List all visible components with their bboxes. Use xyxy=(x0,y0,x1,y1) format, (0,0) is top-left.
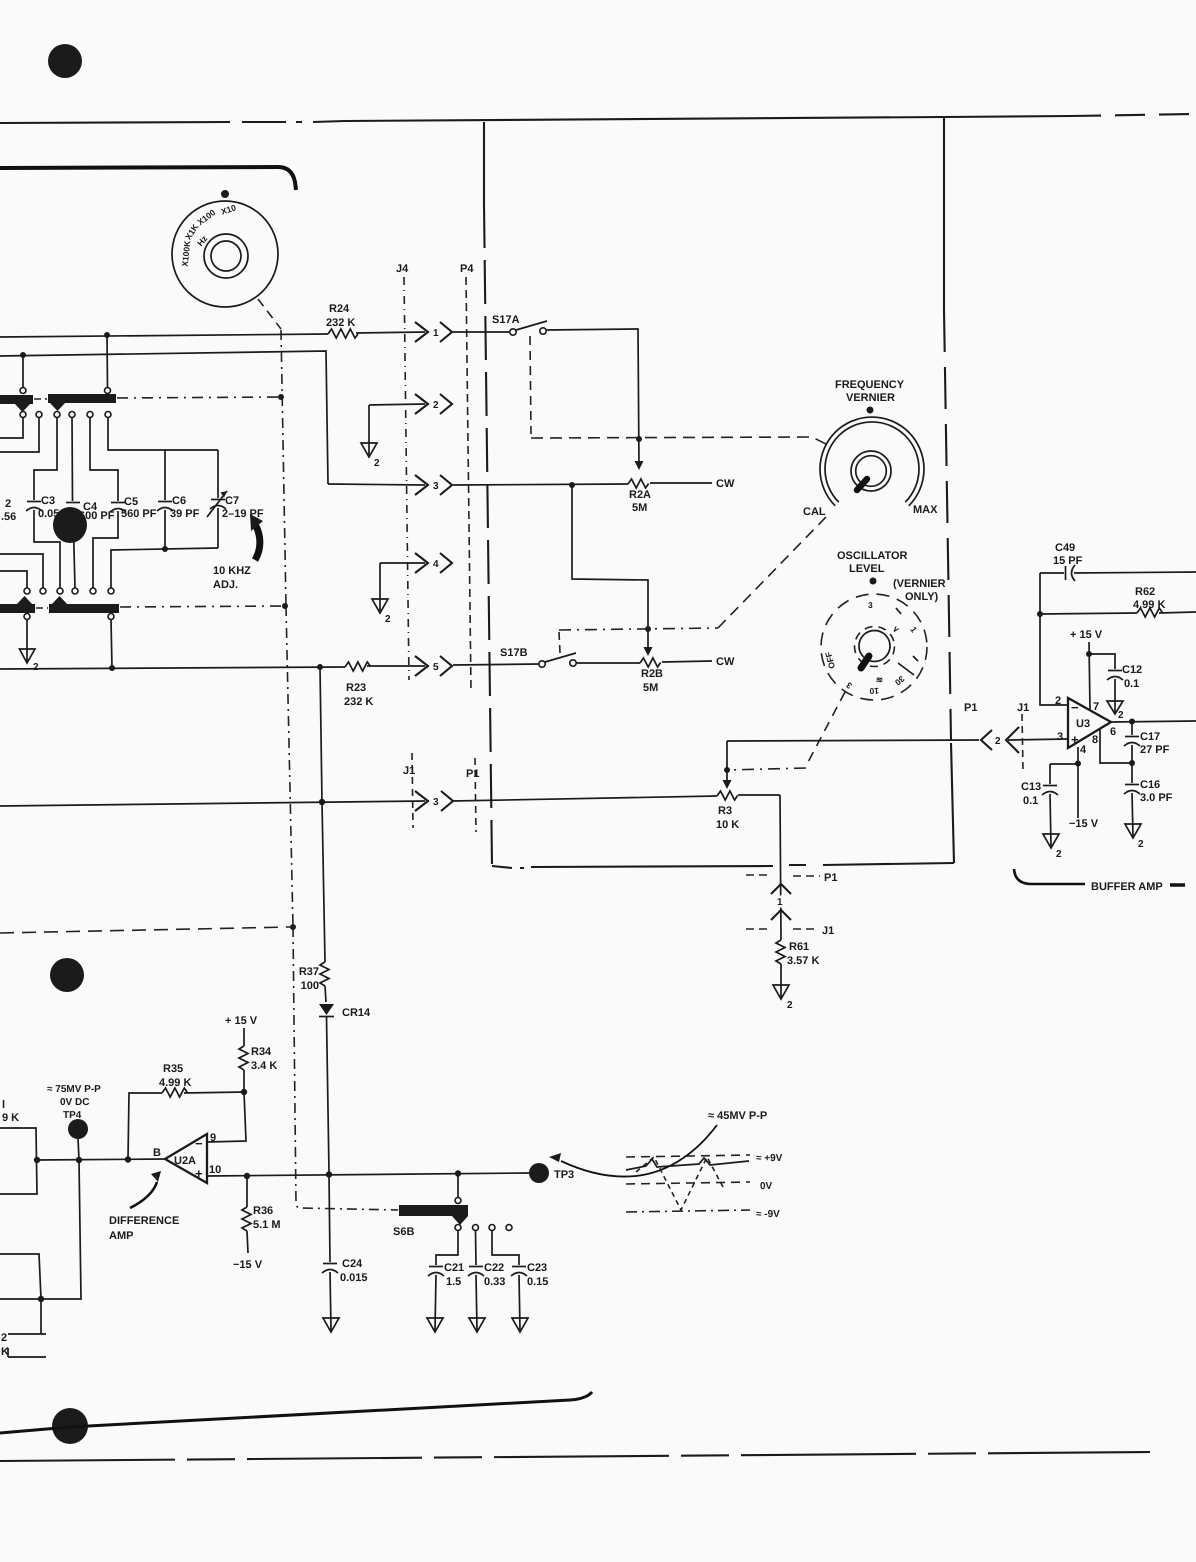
svg-text:CW: CW xyxy=(716,656,735,668)
wire: R3 right end down to R61 xyxy=(780,795,781,940)
svg-text:232 K: 232 K xyxy=(344,696,373,708)
ground below C12 xyxy=(1107,701,1124,721)
boundary vertical left (x~486) xyxy=(484,122,492,866)
wire: left input network to U2A node xyxy=(0,1128,40,1194)
svg-text:7: 7 xyxy=(1093,701,1099,713)
capacitor C24 0.015 xyxy=(322,1171,368,1330)
svg-text:232 K: 232 K xyxy=(326,317,355,329)
svg-text:R62: R62 xyxy=(1135,586,1155,598)
frequency vernier knob xyxy=(803,379,938,518)
svg-text:FREQUENCY: FREQUENCY xyxy=(835,379,905,391)
ground below C22 xyxy=(469,1318,485,1332)
svg-text:R35: R35 xyxy=(163,1063,183,1075)
capacitor C3 0.056 xyxy=(26,417,66,588)
capacitor C6 39 PF xyxy=(108,417,218,549)
mechanical link S17A to frequency vernier (dashed) xyxy=(530,336,828,445)
capacitor C4 600 PF xyxy=(65,417,115,588)
svg-text:S17B: S17B xyxy=(500,647,528,659)
wire: S17A to R2A wiper xyxy=(546,329,644,470)
svg-text:−15 V: −15 V xyxy=(233,1259,263,1271)
resistor R62 4.99K xyxy=(1037,586,1196,617)
svg-text:OSCILLATOR: OSCILLATOR xyxy=(837,550,908,562)
svg-text:C23: C23 xyxy=(527,1262,547,1274)
svg-text:R2B: R2B xyxy=(641,668,663,680)
svg-text:3.57 K: 3.57 K xyxy=(787,955,819,967)
svg-text:J1: J1 xyxy=(822,925,834,937)
svg-text:2: 2 xyxy=(5,498,11,510)
mechanical link S17B to vernier (dash-dot) xyxy=(559,517,826,653)
op-amp U3 xyxy=(1055,695,1116,756)
svg-text:27 PF: 27 PF xyxy=(1140,744,1170,756)
wire: U3 output xyxy=(1111,719,1196,725)
label approx 75MV P-P test point xyxy=(47,1084,101,1121)
capacitor C16 3.0PF xyxy=(1124,763,1173,836)
wire: line to J1-P1 pin 3 xyxy=(0,799,425,806)
svg-text:≈ -9V: ≈ -9V xyxy=(756,1209,780,1220)
wire: R3 wiper from P1 pin 2 line xyxy=(723,741,732,789)
svg-text:3: 3 xyxy=(433,481,439,492)
svg-text:ADJ.: ADJ. xyxy=(213,579,238,591)
capacitor C2 (partial label at page edge) xyxy=(1,498,16,523)
svg-text:9 K: 9 K xyxy=(2,1112,19,1124)
rotary switch wafer S1D (bottom main) xyxy=(49,596,119,620)
svg-text:5: 5 xyxy=(433,662,439,673)
wire: feedback node down to U3 pin 2 xyxy=(1040,573,1068,705)
capacitor C22 0.33 xyxy=(468,1231,505,1331)
ground below C23 xyxy=(512,1318,528,1332)
svg-text:CR14: CR14 xyxy=(342,1007,371,1019)
svg-text:0V DC: 0V DC xyxy=(60,1097,89,1108)
wire: wafer S1 top rotor to line 1 xyxy=(106,335,109,388)
ground below C16 xyxy=(1125,824,1144,850)
svg-text:C12: C12 xyxy=(1122,664,1142,676)
svg-text:3.4 K: 3.4 K xyxy=(251,1060,277,1072)
svg-text:C7: C7 xyxy=(225,495,239,507)
svg-text:39 PF: 39 PF xyxy=(170,508,200,520)
resistor R23 232K xyxy=(344,662,373,708)
wire: R34 node to U2A pin 9 xyxy=(207,1092,246,1142)
svg-text:10: 10 xyxy=(869,686,879,696)
svg-text:R23: R23 xyxy=(346,682,366,694)
capacitor C21 1.5 xyxy=(428,1231,464,1331)
wire: U3 pin 8 to C17 bottom xyxy=(1100,729,1135,766)
svg-text:R37: R37 xyxy=(299,966,319,978)
J4-P4 pin 5 xyxy=(415,656,452,676)
ground below left bottom wafer xyxy=(20,620,40,674)
svg-text:1: 1 xyxy=(777,897,783,908)
svg-text:MAX: MAX xyxy=(913,504,938,516)
section brace top left xyxy=(0,167,296,190)
ground at J4 pin 4 xyxy=(372,563,391,625)
svg-text:R34: R34 xyxy=(251,1046,272,1058)
svg-text:3: 3 xyxy=(433,797,439,808)
waveform sketch at TP3 xyxy=(626,1153,783,1220)
svg-text:S17A: S17A xyxy=(492,314,520,326)
wafer S1D contacts (bottom row) xyxy=(40,588,114,594)
J4-P4 pin 3 xyxy=(415,475,452,495)
svg-text:2: 2 xyxy=(1118,710,1124,721)
partial resistor label at page edge (..1 / 9 K) xyxy=(2,1099,19,1124)
svg-text:(VERNIER: (VERNIER xyxy=(893,578,946,590)
variable capacitor C7 2-19 PF (10 kHz adj) xyxy=(207,450,264,548)
rotary switch wafer S1A-left (top, cut by page edge) xyxy=(0,388,33,418)
wire: U3 pin 4 to -15V and C13 xyxy=(1050,747,1099,830)
svg-text:100: 100 xyxy=(301,980,319,992)
svg-text:B: B xyxy=(153,1147,161,1159)
svg-text:2: 2 xyxy=(385,614,391,625)
wire: pin 3 line to R2A xyxy=(328,482,628,488)
svg-text:4.99 K: 4.99 K xyxy=(159,1077,191,1089)
switch S17B xyxy=(453,647,576,667)
svg-text:≈ +9V: ≈ +9V xyxy=(756,1153,783,1164)
label 10 KHZ ADJ xyxy=(213,514,263,591)
svg-text:R2A: R2A xyxy=(629,489,651,501)
svg-text:4.99 K: 4.99 K xyxy=(1133,599,1165,611)
svg-text:5.1 M: 5.1 M xyxy=(253,1219,281,1231)
ground below C21 xyxy=(427,1318,443,1332)
partial component box at page edge (2 K) xyxy=(1,1332,46,1358)
svg-text:ONLY): ONLY) xyxy=(905,591,939,603)
svg-text:CW: CW xyxy=(716,478,735,490)
wire: pin3 node to R2B wiper xyxy=(572,485,653,656)
svg-text:P4: P4 xyxy=(460,263,474,275)
mechanical linkage from range dial (dashed shaft line) xyxy=(258,299,398,1210)
svg-text:15 PF: 15 PF xyxy=(1053,555,1083,567)
S6B contacts xyxy=(455,1225,512,1231)
connector J1 pin (buffer input) xyxy=(1006,702,1029,770)
resistor R34 3.4K from +15V xyxy=(225,1015,277,1095)
mechanical link oscillator level to R3 wiper (dashed) xyxy=(727,692,845,770)
svg-text:AMP: AMP xyxy=(109,1230,133,1242)
resistor R24 232K xyxy=(326,303,358,338)
svg-text:J1: J1 xyxy=(1017,702,1029,714)
svg-text:C21: C21 xyxy=(444,1262,464,1274)
wire: bottom rail of C6 C7 to wafer xyxy=(111,546,218,588)
svg-text:2: 2 xyxy=(1138,839,1144,850)
wire: second oscillator line down to J1 pin 3 xyxy=(0,351,328,484)
connector J1 pin 1 xyxy=(746,910,834,937)
wire: oscillator output line to J4 pin 1 xyxy=(0,332,425,338)
op-amp U2A (difference amp) xyxy=(153,1132,221,1183)
svg-text:1.5: 1.5 xyxy=(446,1276,461,1288)
wire: lower-left line joining TP4 line xyxy=(0,1254,41,1299)
rotary switch wafer S1B (top main) xyxy=(48,388,116,412)
test point TP4 xyxy=(68,1119,88,1139)
label approx 45MV P-P with arrow to TP3 xyxy=(549,1110,767,1177)
svg-text:−: − xyxy=(1071,700,1079,715)
wire: pin5 node down through R37 xyxy=(320,667,325,962)
J1-P1 pin 3 connector xyxy=(415,791,453,811)
svg-text:5M: 5M xyxy=(643,682,658,694)
punch hole bottom left xyxy=(52,1408,88,1444)
wafer S1B contacts (top row) xyxy=(36,412,111,418)
boundary bottom line of oscillator section xyxy=(492,863,954,868)
svg-text:l: l xyxy=(2,1099,5,1111)
switch S6B wafer xyxy=(393,1205,468,1238)
ground below C13 xyxy=(1043,834,1062,860)
svg-text:10: 10 xyxy=(209,1164,221,1176)
svg-text:.56: .56 xyxy=(1,511,16,523)
wire: U2A output pin10 line to TP3 xyxy=(207,1170,529,1179)
wire: left wafer rotor to line 2 xyxy=(22,355,24,388)
potentiometer R2A 5M xyxy=(628,478,735,514)
svg-text:3: 3 xyxy=(868,600,873,610)
svg-text:2: 2 xyxy=(374,458,380,469)
svg-text:R36: R36 xyxy=(253,1205,273,1217)
connector J4 label xyxy=(396,263,409,680)
capacitor C23 0.15 xyxy=(492,1231,548,1331)
svg-text:S6B: S6B xyxy=(393,1226,414,1238)
connector P4 label xyxy=(460,263,474,690)
svg-text:≈ 75MV P-P: ≈ 75MV P-P xyxy=(47,1084,101,1095)
svg-text:U2A: U2A xyxy=(174,1155,196,1167)
svg-text:BUFFER AMP: BUFFER AMP xyxy=(1091,881,1163,893)
svg-text:R3: R3 xyxy=(718,805,732,817)
svg-text:0.15: 0.15 xyxy=(527,1276,548,1288)
svg-text:10 K: 10 K xyxy=(716,819,739,831)
wire: TP3 node to S6B rotor xyxy=(455,1174,461,1204)
resistor R35 4.99K (feedback) xyxy=(128,1063,244,1160)
svg-text:+: + xyxy=(195,1166,203,1181)
wire: bottom wafer rotor to pin5 line xyxy=(111,620,112,669)
svg-text:C5: C5 xyxy=(124,496,138,508)
ink blob artifact xyxy=(53,507,87,543)
mechanical link top wafers (dashed) xyxy=(34,394,284,400)
svg-text:0V: 0V xyxy=(760,1181,773,1192)
capacitor C49 15PF xyxy=(1040,542,1196,581)
svg-text:6: 6 xyxy=(1110,726,1116,738)
svg-text:2: 2 xyxy=(33,662,39,673)
svg-text:8: 8 xyxy=(1092,734,1098,746)
connector P1 pin 1 (down through board edge) xyxy=(746,872,837,908)
punch hole top left xyxy=(48,44,82,78)
svg-text:4: 4 xyxy=(433,559,439,570)
svg-text:0.33: 0.33 xyxy=(484,1276,505,1288)
svg-text:C49: C49 xyxy=(1055,542,1075,554)
label DIFFERENCE AMP with arrow xyxy=(109,1171,179,1242)
svg-text:P1: P1 xyxy=(964,702,977,714)
svg-text:0.015: 0.015 xyxy=(340,1272,368,1284)
test point TP3 xyxy=(529,1163,574,1183)
potentiometer R3 10K xyxy=(716,791,780,831)
svg-text:+: + xyxy=(1071,732,1079,747)
svg-text:C6: C6 xyxy=(172,495,186,507)
oscillator level knob xyxy=(821,550,946,700)
rotary switch wafer S1C-left (bottom, cut by page edge) xyxy=(0,588,35,620)
svg-text:VERNIER: VERNIER xyxy=(846,392,895,404)
svg-text:C16: C16 xyxy=(1140,779,1160,791)
svg-text:U3: U3 xyxy=(1076,718,1090,730)
svg-text:2: 2 xyxy=(1,1332,7,1344)
svg-text:J1: J1 xyxy=(403,765,415,777)
svg-text:2: 2 xyxy=(1056,849,1062,860)
svg-text:≈ 45MV P-P: ≈ 45MV P-P xyxy=(708,1110,767,1122)
page top border (dash-dot boundary) xyxy=(0,114,1196,123)
connector P1 label (pin 3 line) xyxy=(466,758,479,832)
svg-text:C13: C13 xyxy=(1021,781,1041,793)
svg-text:C22: C22 xyxy=(484,1262,504,1274)
capacitor C17 27PF xyxy=(1124,722,1170,764)
svg-text:10 KHZ: 10 KHZ xyxy=(213,565,251,577)
mechanical link bottom wafers (dashed) xyxy=(36,603,288,609)
wire: J1 to U3 pin 3 xyxy=(1008,739,1068,740)
svg-text:P1: P1 xyxy=(466,768,479,780)
svg-text:9: 9 xyxy=(210,1132,216,1144)
wire: P1 pin 2 output line xyxy=(727,740,979,741)
section brace bottom left xyxy=(0,1392,592,1433)
svg-text:3.0 PF: 3.0 PF xyxy=(1140,792,1173,804)
capacitor C5 560 PF xyxy=(90,417,157,588)
boundary vertical right (x~948) xyxy=(944,117,954,863)
svg-text:R61: R61 xyxy=(789,941,809,953)
svg-text:C17: C17 xyxy=(1140,731,1160,743)
resistor R61 3.57K xyxy=(776,940,819,997)
potentiometer R2B 5M xyxy=(576,656,735,694)
range dial index dot xyxy=(221,190,229,198)
svg-text:0.1: 0.1 xyxy=(1124,678,1139,690)
svg-text:+ 15 V: + 15 V xyxy=(225,1015,258,1027)
connector P1 pin 2 xyxy=(964,702,1001,750)
buffer amp section brace and label xyxy=(1014,869,1185,893)
wire: pin 3 to R3 xyxy=(453,796,717,801)
svg-text:−15 V: −15 V xyxy=(1069,818,1099,830)
svg-text:J4: J4 xyxy=(396,263,409,275)
capacitor C12 0.1 xyxy=(1089,654,1142,712)
punch hole middle left xyxy=(50,958,84,992)
svg-text:CAL: CAL xyxy=(803,506,826,518)
ground below R61 xyxy=(773,985,793,1011)
switch S17A xyxy=(453,314,547,335)
svg-text:5M: 5M xyxy=(632,502,647,514)
svg-text:2: 2 xyxy=(787,1000,793,1011)
svg-text:C24: C24 xyxy=(342,1258,363,1270)
wire: TP4 stem and line down to page edge xyxy=(0,1138,81,1334)
svg-text:≋: ≋ xyxy=(876,675,883,685)
resistor R37 100 xyxy=(299,962,329,1002)
wire: top contact stubs to page edge xyxy=(0,417,39,452)
svg-text:560 PF: 560 PF xyxy=(121,508,157,520)
svg-text:TP3: TP3 xyxy=(554,1169,574,1181)
range switch dial xyxy=(172,201,278,307)
wire: node B line to U2A xyxy=(37,1156,165,1163)
svg-text:P1: P1 xyxy=(824,872,837,884)
J4-P4 pin 4 xyxy=(380,553,452,573)
J4-P4 pin 1 xyxy=(415,322,452,342)
svg-text:C3: C3 xyxy=(41,495,55,507)
+15V supply to U3 pin 7 xyxy=(1070,629,1103,710)
resistor R36 5.1M xyxy=(233,1176,281,1271)
diode CR14 xyxy=(319,1004,371,1172)
wire: bottom contact stubs to page edge xyxy=(0,554,43,588)
svg-text:2: 2 xyxy=(1055,695,1061,707)
capacitor C13 0.1 xyxy=(1021,764,1058,846)
ground at J4 pin 2 xyxy=(361,405,380,469)
J4-P4 pin 2 xyxy=(369,394,452,414)
svg-text:R24: R24 xyxy=(329,303,350,315)
svg-text:2: 2 xyxy=(433,400,439,411)
page bottom border (dash chain) xyxy=(0,1452,1150,1461)
svg-text:1: 1 xyxy=(433,328,439,339)
svg-text:2: 2 xyxy=(995,736,1001,747)
connector J1 label (pin 3 line) xyxy=(403,753,415,828)
svg-text:3: 3 xyxy=(1057,731,1063,743)
svg-text:0.1: 0.1 xyxy=(1023,795,1038,807)
wire: lower oscillator line through R23 to pin 5 xyxy=(0,664,425,671)
svg-text:−: − xyxy=(195,1136,203,1151)
svg-text:4: 4 xyxy=(1080,744,1087,756)
ground below C24 xyxy=(323,1318,339,1332)
svg-text:LEVEL: LEVEL xyxy=(849,563,885,575)
mechanical dashed line entering from page left xyxy=(0,924,296,933)
svg-text:DIFFERENCE: DIFFERENCE xyxy=(109,1215,179,1227)
svg-text:+ 15 V: + 15 V xyxy=(1070,629,1103,641)
